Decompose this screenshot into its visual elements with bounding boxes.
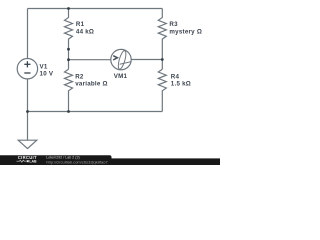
node junction top of R1 [67, 7, 70, 10]
wire left rail upper (top corner to V1 top) [27, 9, 29, 59]
voltage source V1 [17, 58, 37, 78]
resistor R3 [158, 9, 166, 70]
wire bottom horizontal [28, 111, 163, 113]
node junction R1 bottom [67, 48, 70, 51]
svg-text:44 kΩ: 44 kΩ [76, 29, 94, 36]
watermark bottom band [0, 158, 220, 165]
wire top horizontal [28, 8, 163, 10]
label R4 value [171, 73, 191, 87]
svg-text:R4: R4 [171, 73, 180, 80]
resistor R4 [158, 69, 166, 111]
svg-text:R2: R2 [75, 74, 84, 81]
label R3 value [169, 21, 202, 35]
wire VM1 left [69, 59, 111, 61]
svg-text:mystery Ω: mystery Ω [169, 28, 202, 35]
svg-text:R1: R1 [76, 21, 85, 28]
label V1 value [40, 63, 54, 77]
node junction bottom of R2 [67, 110, 70, 113]
wire ground stub [27, 112, 29, 141]
voltmeter VM1 [111, 49, 131, 69]
wire VM1 right [131, 59, 162, 61]
svg-text:10 V: 10 V [40, 70, 54, 77]
watermark LAB squiggle [17, 160, 38, 164]
resistor R2 [65, 69, 73, 111]
resistor R1 [65, 9, 73, 50]
wire mid-left between R1 and R2 [68, 49, 70, 69]
ground [18, 140, 37, 148]
node junction bottom left [26, 110, 29, 113]
svg-text:LAB: LAB [29, 160, 37, 164]
node junction left VM tap [67, 58, 70, 61]
node junction right VM tap [161, 58, 164, 61]
label R2 value [75, 74, 108, 88]
svg-text:variable Ω: variable Ω [75, 81, 108, 88]
label R1 value [76, 21, 94, 35]
svg-text:R3: R3 [169, 21, 178, 28]
svg-text:1.5 kΩ: 1.5 kΩ [171, 81, 191, 88]
svg-text:http://circuitlab.com/c6s32jqk: http://circuitlab.com/c6s32jqk8fao7 [46, 160, 108, 165]
watermark logo block [0, 155, 112, 165]
svg-text:V1: V1 [40, 63, 48, 70]
wire left rail lower (V1 bottom to bottom wire) [27, 79, 29, 112]
svg-text:VM1: VM1 [114, 73, 128, 80]
